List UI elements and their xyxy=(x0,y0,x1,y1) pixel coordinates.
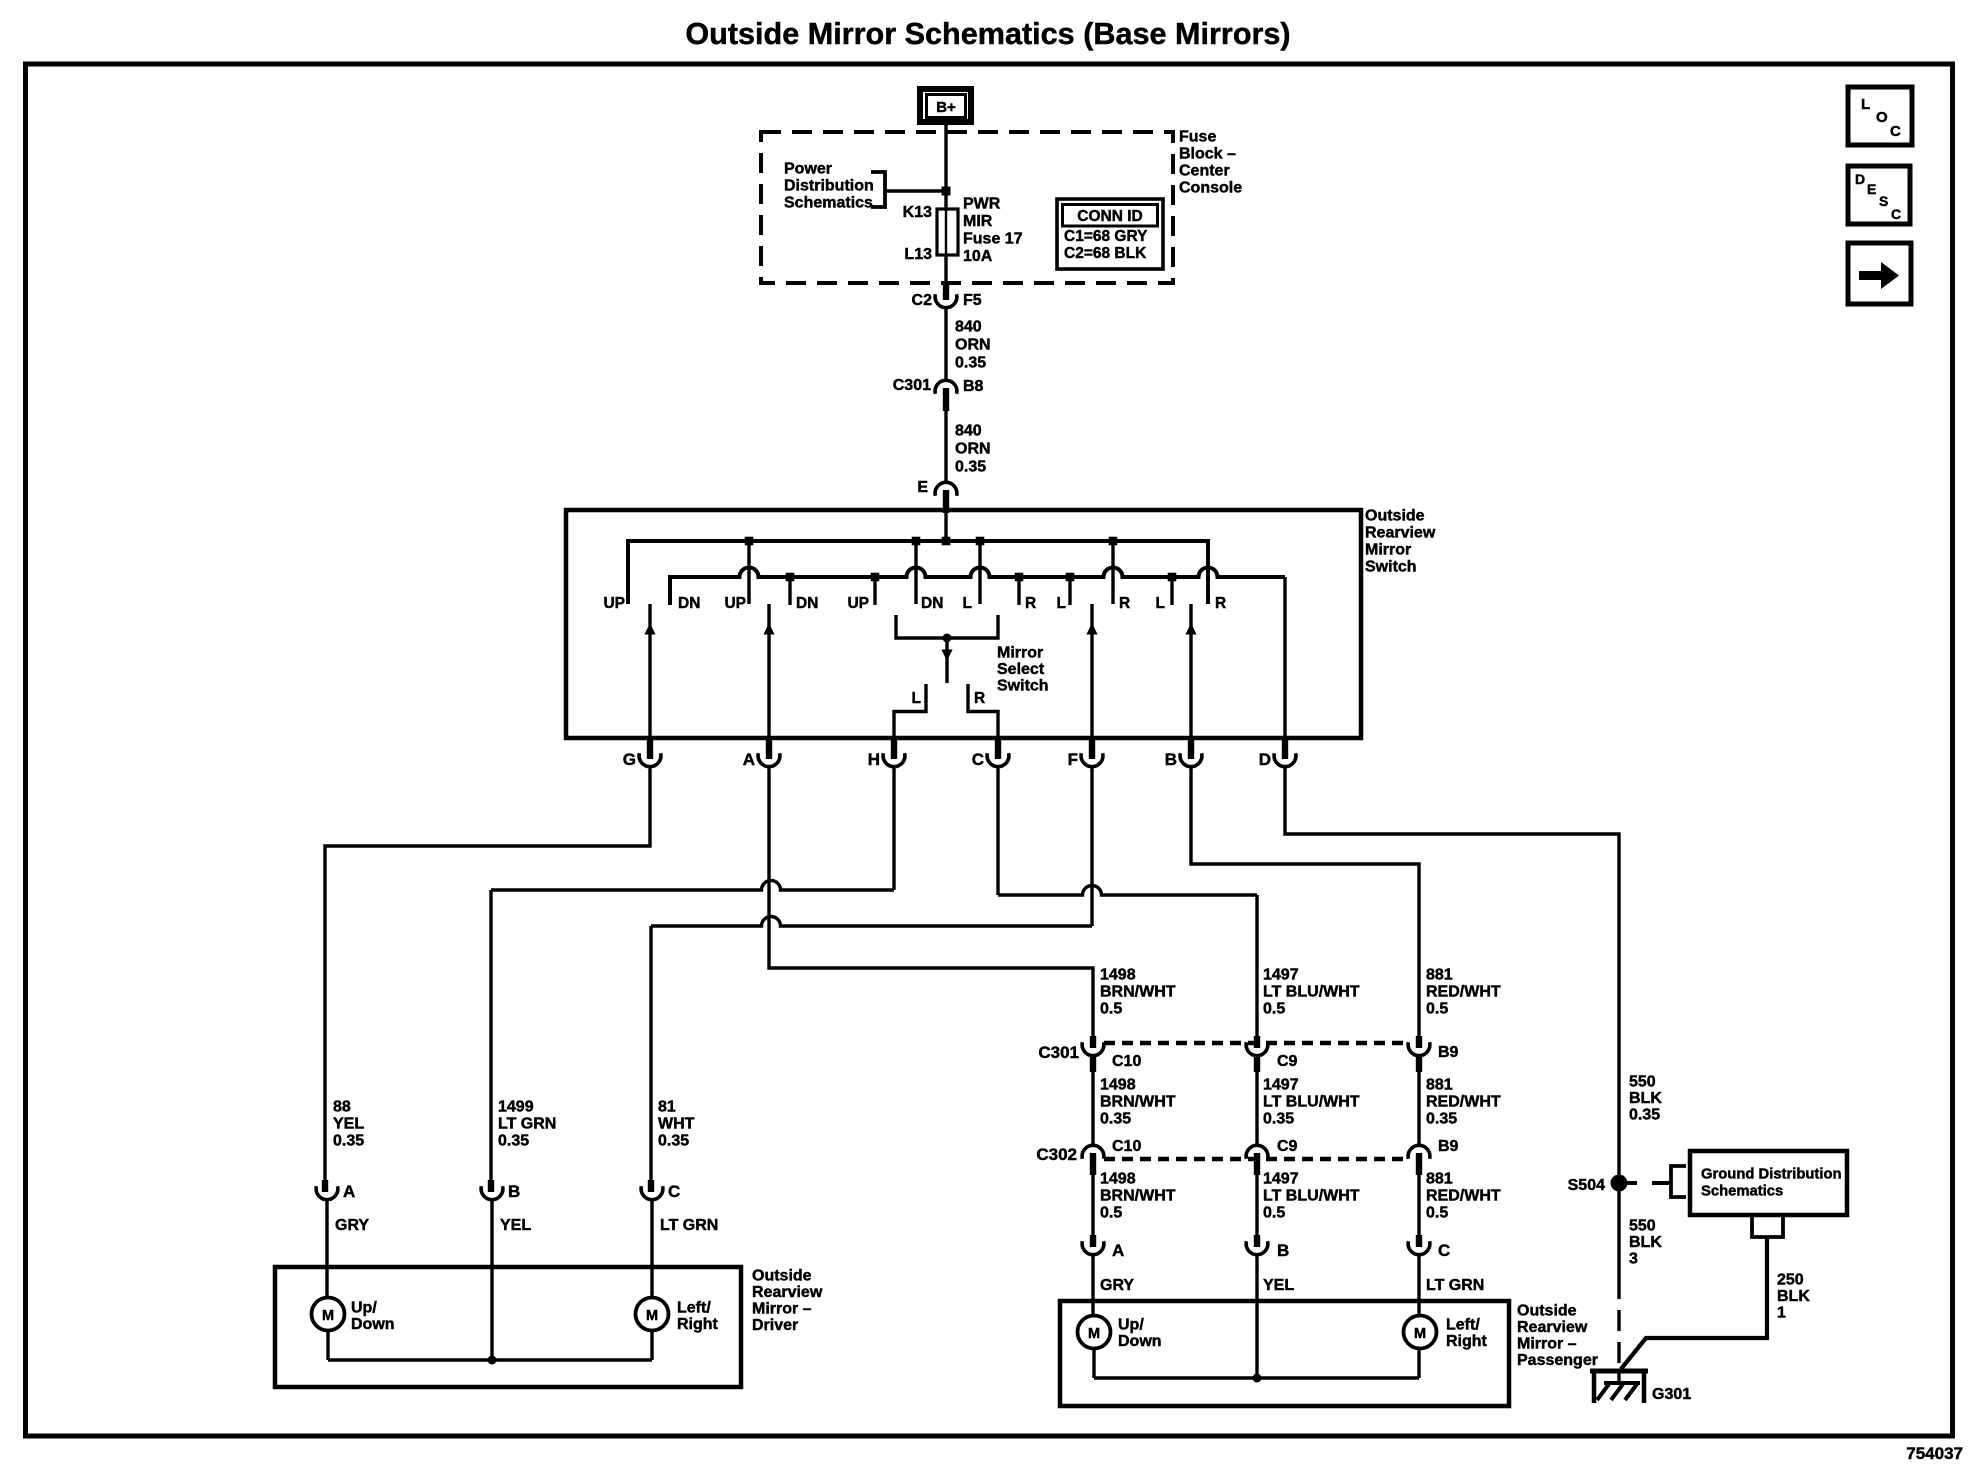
svg-text:O: O xyxy=(1876,109,1888,126)
contact labels driver up/down xyxy=(603,595,818,612)
svg-text:M: M xyxy=(1088,1326,1100,1342)
svg-text:Schematics: Schematics xyxy=(1701,1184,1783,1200)
motor up/down driver xyxy=(312,1298,395,1334)
connector C301 pin B9 xyxy=(1408,1042,1458,1061)
wire B+ to fuse block xyxy=(944,125,947,211)
svg-text:BRN/WHT: BRN/WHT xyxy=(1100,1094,1176,1111)
svg-text:0.5: 0.5 xyxy=(1263,1001,1285,1018)
svg-text:C10: C10 xyxy=(1112,1138,1141,1155)
svg-text:Power: Power xyxy=(784,161,832,178)
wire D to splice S504 (550 BLK) xyxy=(1285,768,1619,1177)
svg-text:L: L xyxy=(963,595,972,612)
wire label 81 WHT 0.35 xyxy=(658,1099,695,1150)
connector pin H (switch output) xyxy=(868,739,905,769)
svg-text:H: H xyxy=(868,750,880,769)
motor left/right passenger xyxy=(1404,1316,1488,1351)
svg-text:C: C xyxy=(1890,123,1901,140)
svg-text:0.5: 0.5 xyxy=(1426,1001,1448,1018)
svg-text:BLK: BLK xyxy=(1629,1234,1662,1251)
svg-text:D: D xyxy=(1855,171,1865,187)
svg-text:RED/WHT: RED/WHT xyxy=(1426,984,1501,1001)
svg-text:Up/: Up/ xyxy=(1118,1317,1144,1334)
svg-text:E: E xyxy=(1867,181,1876,197)
connector C302 pin B9 xyxy=(1408,1138,1458,1159)
svg-text:1498: 1498 xyxy=(1100,1077,1136,1094)
svg-text:DN: DN xyxy=(678,595,700,612)
svg-text:1: 1 xyxy=(1777,1305,1786,1322)
ground G301 xyxy=(1590,1371,1691,1403)
connector pin B driver mirror xyxy=(481,1182,531,1234)
connector pin F (switch output) xyxy=(1068,739,1103,769)
svg-text:A: A xyxy=(343,1182,355,1201)
wire pin B to motor common (passenger) xyxy=(1255,1255,1258,1378)
off-page ref bracket to ground distribution xyxy=(1652,1166,1686,1197)
outside rearview mirror driver box xyxy=(275,1267,823,1387)
svg-text:Switch: Switch xyxy=(1365,559,1417,576)
wire 840 ORN 0.35 (upper) xyxy=(946,309,991,380)
mirror select contact R to C xyxy=(968,684,998,738)
svg-text:A: A xyxy=(1112,1241,1124,1260)
svg-text:1499: 1499 xyxy=(498,1099,534,1116)
svg-text:Mirror: Mirror xyxy=(997,645,1043,662)
passenger motor common bus xyxy=(1094,1349,1419,1383)
svg-text:Distribution: Distribution xyxy=(784,178,874,195)
svg-text:Mirror –: Mirror – xyxy=(1517,1336,1577,1353)
svg-text:0.35: 0.35 xyxy=(1629,1107,1660,1124)
wire label 1499 LT GRN 0.35 xyxy=(498,1099,556,1150)
connector pin A passenger xyxy=(1082,1235,1134,1294)
wire D output from lower bus xyxy=(1283,577,1286,738)
svg-text:0.35: 0.35 xyxy=(955,355,986,372)
svg-text:881: 881 xyxy=(1426,1077,1453,1094)
svg-text:GRY: GRY xyxy=(335,1217,369,1234)
svg-text:L: L xyxy=(1156,595,1165,612)
svg-text:C9: C9 xyxy=(1277,1138,1298,1155)
svg-text:YEL: YEL xyxy=(1263,1277,1294,1294)
wire E to switch bus xyxy=(944,513,947,541)
power feed B+ terminal xyxy=(920,89,971,122)
svg-text:Outside: Outside xyxy=(1365,508,1425,525)
diagram number xyxy=(1906,1444,1963,1463)
dashed link C302 xyxy=(1104,1157,1408,1162)
motor up/down passenger xyxy=(1078,1316,1162,1351)
wire F to driver pin C xyxy=(651,768,1092,1193)
upper bus junctions xyxy=(745,537,1118,546)
svg-text:C1=68 GRY: C1=68 GRY xyxy=(1064,228,1148,245)
svg-text:S: S xyxy=(1879,193,1888,209)
svg-text:0.35: 0.35 xyxy=(1100,1111,1131,1128)
wiper A (driver up/down 2) xyxy=(763,604,774,738)
wire C301 to C302 col2 xyxy=(1257,1056,1360,1145)
svg-text:0.35: 0.35 xyxy=(658,1133,689,1150)
svg-text:881: 881 xyxy=(1426,1171,1453,1188)
svg-text:0.35: 0.35 xyxy=(333,1133,364,1150)
svg-text:1498: 1498 xyxy=(1100,1171,1136,1188)
svg-text:RED/WHT: RED/WHT xyxy=(1426,1188,1501,1205)
wire A to passenger pin A xyxy=(769,768,1093,1049)
wiper B (passenger l/r 2) xyxy=(1185,604,1196,738)
svg-text:Switch: Switch xyxy=(997,678,1049,695)
wiper F (passenger l/r) xyxy=(1086,604,1097,738)
contact labels passenger left/right xyxy=(1057,595,1227,612)
svg-text:C302: C302 xyxy=(1036,1145,1077,1164)
svg-text:UP: UP xyxy=(847,595,869,612)
wire C301 to C302 col3 xyxy=(1419,1056,1501,1145)
connector pin B (switch output) xyxy=(1165,739,1202,769)
svg-text:M: M xyxy=(322,1308,334,1324)
wire pin C to left/right motor (passenger) xyxy=(1417,1255,1420,1316)
next page arrow box xyxy=(1848,243,1911,304)
connector C301 pin C9 xyxy=(1246,1042,1297,1070)
fuse block - center console (dashed box) xyxy=(761,129,1242,284)
svg-text:Down: Down xyxy=(1118,1333,1162,1350)
svg-text:B8: B8 xyxy=(963,378,984,395)
wiper G (driver up/down) xyxy=(644,604,655,738)
svg-text:10A: 10A xyxy=(963,248,993,265)
svg-text:UP: UP xyxy=(603,595,625,612)
svg-text:Mirror: Mirror xyxy=(1365,542,1411,559)
svg-text:K13: K13 xyxy=(903,204,932,221)
connector C301 pin C10 xyxy=(1038,1042,1141,1070)
fuse F17 PWR MIR 10A xyxy=(903,196,1023,266)
svg-text:A: A xyxy=(743,750,755,769)
connector pin A (switch output) xyxy=(743,739,780,769)
svg-text:LT GRN: LT GRN xyxy=(498,1116,556,1133)
wire 840 ORN 0.35 (lower) xyxy=(946,411,991,482)
connector pin B passenger xyxy=(1246,1235,1294,1294)
svg-text:E: E xyxy=(917,479,928,496)
svg-text:B9: B9 xyxy=(1438,1044,1459,1061)
wire bracket to fuse node xyxy=(885,187,951,196)
wire C301 to C302 col1 xyxy=(1093,1056,1176,1145)
wire pin A to up/down motor (driver) xyxy=(325,1200,328,1298)
off-page ref: power distribution schematics xyxy=(784,161,885,212)
svg-text:R: R xyxy=(1215,595,1226,612)
svg-text:F5: F5 xyxy=(963,292,982,309)
wire H to driver pin B xyxy=(491,768,894,1193)
svg-text:754037: 754037 xyxy=(1906,1444,1963,1463)
svg-text:LT BLU/WHT: LT BLU/WHT xyxy=(1263,984,1360,1001)
svg-text:YEL: YEL xyxy=(500,1217,531,1234)
svg-text:550: 550 xyxy=(1629,1074,1656,1091)
svg-text:R: R xyxy=(1119,595,1130,612)
svg-text:L: L xyxy=(1057,595,1066,612)
wire label 550 BLK 0.35 xyxy=(1629,1074,1662,1124)
wire C to passenger pin B xyxy=(998,768,1257,1049)
svg-text:Right: Right xyxy=(1446,1333,1488,1350)
svg-text:B9: B9 xyxy=(1438,1138,1459,1155)
svg-text:1497: 1497 xyxy=(1263,967,1299,984)
svg-text:0.35: 0.35 xyxy=(1426,1111,1457,1128)
svg-text:840: 840 xyxy=(955,319,982,336)
connector pin A driver mirror xyxy=(316,1182,369,1234)
svg-text:0.35: 0.35 xyxy=(955,459,986,476)
svg-text:Ground Distribution: Ground Distribution xyxy=(1701,1167,1842,1183)
svg-text:840: 840 xyxy=(955,423,982,440)
outside rearview mirror switch box xyxy=(566,508,1436,739)
svg-text:1497: 1497 xyxy=(1263,1077,1299,1094)
svg-text:YEL: YEL xyxy=(333,1116,364,1133)
wire G to driver pin A xyxy=(325,768,650,1193)
motor left/right driver xyxy=(636,1298,719,1334)
svg-text:0.35: 0.35 xyxy=(1263,1111,1294,1128)
svg-text:Outside Mirror Schematics (Bas: Outside Mirror Schematics (Base Mirrors) xyxy=(685,17,1290,51)
driver motor common bus xyxy=(328,1331,652,1365)
svg-text:Passenger: Passenger xyxy=(1517,1352,1598,1369)
svg-text:250: 250 xyxy=(1777,1272,1804,1289)
svg-text:LT GRN: LT GRN xyxy=(660,1217,718,1234)
svg-text:DN: DN xyxy=(796,595,818,612)
svg-text:LT GRN: LT GRN xyxy=(1426,1277,1484,1294)
svg-text:Outside: Outside xyxy=(1517,1303,1577,1320)
svg-text:G301: G301 xyxy=(1652,1386,1691,1403)
svg-text:1497: 1497 xyxy=(1263,1171,1299,1188)
wire C302 to passenger pin B xyxy=(1257,1153,1360,1235)
svg-text:S504: S504 xyxy=(1568,1177,1605,1194)
svg-text:Driver: Driver xyxy=(752,1317,798,1334)
svg-text:C: C xyxy=(972,750,984,769)
svg-text:LT BLU/WHT: LT BLU/WHT xyxy=(1263,1188,1360,1205)
wire B to passenger pin C xyxy=(1191,768,1419,1049)
svg-text:0.5: 0.5 xyxy=(1100,1205,1122,1222)
connector pin G (switch output) xyxy=(623,739,661,769)
lower bus contact stubs xyxy=(790,577,1172,605)
wire fuse to C2 xyxy=(944,255,947,298)
connector C302 pin C10 xyxy=(1036,1138,1141,1164)
svg-text:R: R xyxy=(1025,595,1036,612)
wire pin B to motor common (driver) xyxy=(490,1200,493,1360)
svg-text:81: 81 xyxy=(658,1099,676,1116)
svg-text:D: D xyxy=(1259,750,1271,769)
svg-text:Up/: Up/ xyxy=(351,1300,377,1317)
wire label 1497 LT BLU/WHT 0.5 (a) xyxy=(1263,967,1360,1018)
svg-text:BLK: BLK xyxy=(1629,1090,1662,1107)
svg-text:Left/: Left/ xyxy=(1446,1317,1480,1334)
svg-text:0.5: 0.5 xyxy=(1100,1001,1122,1018)
wire pin A to up/down motor (passenger) xyxy=(1091,1255,1094,1316)
svg-text:Fuse: Fuse xyxy=(1179,129,1216,146)
svg-text:C2=68 BLK: C2=68 BLK xyxy=(1064,245,1147,262)
connector C2 pin F5 xyxy=(912,284,982,309)
svg-text:C9: C9 xyxy=(1277,1053,1298,1070)
svg-text:0.5: 0.5 xyxy=(1263,1205,1285,1222)
svg-text:881: 881 xyxy=(1426,967,1453,984)
mirror select contact L to H xyxy=(894,684,926,738)
ground distribution schematics box xyxy=(1690,1151,1847,1215)
svg-text:MIR: MIR xyxy=(963,213,993,230)
svg-text:G: G xyxy=(623,750,636,769)
svg-text:Outside: Outside xyxy=(752,1268,812,1285)
wire label 88 YEL 0.35 xyxy=(333,1099,364,1150)
svg-text:DN: DN xyxy=(921,595,943,612)
svg-text:Rearview: Rearview xyxy=(752,1284,823,1301)
dashed link C301 xyxy=(1104,1041,1408,1046)
svg-text:L: L xyxy=(1861,96,1870,113)
svg-text:R: R xyxy=(974,690,985,707)
connector pin C passenger xyxy=(1408,1235,1484,1294)
svg-text:B: B xyxy=(1165,750,1177,769)
svg-text:GRY: GRY xyxy=(1100,1277,1134,1294)
connector pin C (switch output) xyxy=(972,739,1009,769)
svg-text:Right: Right xyxy=(677,1316,719,1333)
svg-text:Down: Down xyxy=(351,1316,395,1333)
svg-text:F: F xyxy=(1068,750,1078,769)
conn id table xyxy=(1057,199,1163,269)
loc nav box xyxy=(1848,87,1912,145)
wire C302 to passenger pin C xyxy=(1419,1153,1501,1235)
connector pin C driver mirror xyxy=(641,1182,718,1234)
title xyxy=(685,17,1290,51)
svg-text:BLK: BLK xyxy=(1777,1288,1810,1305)
svg-text:C10: C10 xyxy=(1112,1053,1141,1070)
wire label 1498 BRN/WHT 0.5 (a) xyxy=(1100,967,1176,1018)
connector C302 pin C9 xyxy=(1246,1138,1297,1159)
splice S504 xyxy=(1568,1175,1637,1195)
svg-text:L13: L13 xyxy=(904,246,932,263)
svg-text:B+: B+ xyxy=(936,99,956,116)
svg-text:Rearview: Rearview xyxy=(1365,525,1436,542)
svg-text:B: B xyxy=(508,1182,520,1201)
svg-text:UP: UP xyxy=(724,595,746,612)
svg-text:Left/: Left/ xyxy=(677,1300,711,1317)
svg-text:C: C xyxy=(1891,206,1901,222)
wire label 881 RED/WHT 0.5 (a) xyxy=(1426,967,1501,1018)
desc nav box xyxy=(1848,166,1910,224)
wire 250 BLK 1 from ground distribution xyxy=(1621,1215,1810,1369)
svg-text:Console: Console xyxy=(1179,180,1242,197)
connector pin D (switch output) xyxy=(1259,739,1296,769)
svg-text:M: M xyxy=(646,1308,658,1324)
svg-text:C: C xyxy=(1438,1241,1450,1260)
mirror select switch bracket xyxy=(896,615,1049,695)
svg-text:Fuse 17: Fuse 17 xyxy=(963,231,1023,248)
svg-text:CONN ID: CONN ID xyxy=(1077,208,1142,225)
svg-text:PWR: PWR xyxy=(963,196,1001,213)
svg-text:Schematics: Schematics xyxy=(784,195,873,212)
svg-text:L: L xyxy=(912,690,921,707)
wire 550 BLK dashed to ground xyxy=(1617,1278,1620,1371)
lower bus junctions xyxy=(786,573,1177,582)
connector C301 pin B8 xyxy=(893,377,984,411)
svg-text:Rearview: Rearview xyxy=(1517,1319,1588,1336)
svg-text:BRN/WHT: BRN/WHT xyxy=(1100,984,1176,1001)
svg-text:0.35: 0.35 xyxy=(498,1133,529,1150)
svg-text:ORN: ORN xyxy=(955,337,991,354)
svg-text:Block –: Block – xyxy=(1179,146,1236,163)
svg-text:Select: Select xyxy=(997,661,1045,678)
wire 550 BLK 3 to ground xyxy=(1619,1191,1662,1278)
svg-text:LT BLU/WHT: LT BLU/WHT xyxy=(1263,1094,1360,1111)
svg-text:WHT: WHT xyxy=(658,1116,695,1133)
svg-text:Mirror –: Mirror – xyxy=(752,1301,812,1318)
upper bus contact drops xyxy=(749,541,1113,604)
svg-text:88: 88 xyxy=(333,1099,351,1116)
upper feed bus xyxy=(628,541,1208,604)
svg-text:550: 550 xyxy=(1629,1218,1656,1235)
wire pin C to left/right motor (driver) xyxy=(650,1200,653,1298)
connector E (to mirror switch) xyxy=(917,479,957,513)
svg-text:0.5: 0.5 xyxy=(1426,1205,1448,1222)
svg-text:Center: Center xyxy=(1179,163,1230,180)
svg-text:C2: C2 xyxy=(912,292,933,309)
lower feed bus xyxy=(670,568,1285,606)
svg-text:BRN/WHT: BRN/WHT xyxy=(1100,1188,1176,1205)
svg-text:C: C xyxy=(668,1182,680,1201)
svg-text:1498: 1498 xyxy=(1100,967,1136,984)
svg-text:RED/WHT: RED/WHT xyxy=(1426,1094,1501,1111)
svg-text:M: M xyxy=(1414,1326,1426,1342)
wire C302 to passenger pin A xyxy=(1093,1153,1176,1235)
svg-text:C301: C301 xyxy=(1038,1043,1079,1062)
svg-text:ORN: ORN xyxy=(955,441,991,458)
svg-text:C301: C301 xyxy=(893,377,931,394)
outside rearview mirror passenger box xyxy=(1060,1301,1598,1406)
contact labels select pairs xyxy=(847,595,1036,612)
svg-text:B: B xyxy=(1277,1241,1289,1260)
svg-text:3: 3 xyxy=(1629,1251,1638,1268)
